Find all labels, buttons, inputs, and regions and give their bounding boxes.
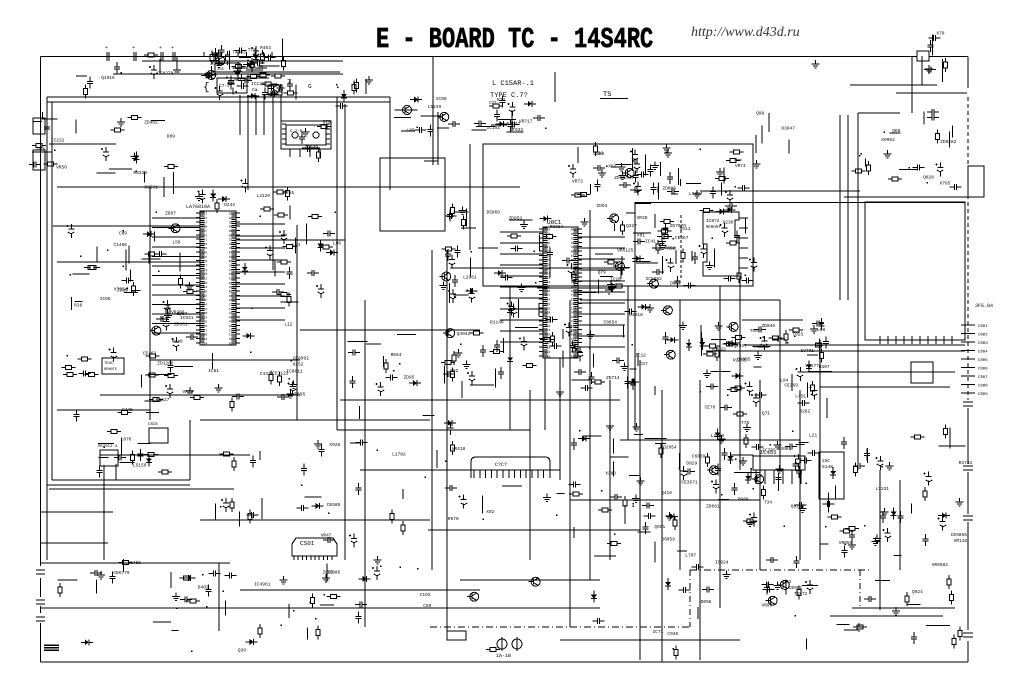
svg-text:L2961: L2961 — [463, 274, 477, 280]
svg-text:L076: L076 — [121, 436, 132, 442]
svg-text:ZD053: ZD053 — [509, 215, 523, 221]
svg-text:T695: T695 — [294, 392, 305, 398]
svg-text:913: 913 — [571, 236, 577, 240]
svg-text:C806: C806 — [978, 367, 988, 372]
svg-text:R678: R678 — [448, 516, 459, 522]
svg-text:Q79: Q79 — [598, 270, 606, 276]
svg-text:D244: D244 — [224, 202, 235, 208]
svg-text:R5327: R5327 — [156, 397, 170, 403]
svg-text:C57: C57 — [640, 361, 648, 367]
svg-text:ZD849: ZD849 — [305, 145, 319, 151]
svg-text:C50: C50 — [423, 603, 431, 609]
svg-text:X383: X383 — [605, 471, 616, 477]
svg-text:917: 917 — [229, 324, 235, 328]
svg-text:TEAC: TEAC — [104, 361, 114, 366]
svg-text:X02: X02 — [486, 509, 494, 515]
svg-text:CE585: CE585 — [327, 502, 341, 508]
svg-text:8A3: 8A3 — [571, 228, 577, 232]
svg-text:IC705: IC705 — [762, 447, 776, 453]
svg-text:+: + — [171, 45, 174, 51]
svg-text:CE6779: CE6779 — [113, 570, 130, 576]
svg-text:R92: R92 — [450, 368, 458, 374]
svg-text:L451: L451 — [795, 395, 806, 400]
svg-text:VR50: VR50 — [56, 165, 67, 171]
svg-text:C809: C809 — [978, 392, 988, 397]
svg-text:C6039: C6039 — [692, 454, 706, 460]
svg-text:9B8: 9B8 — [545, 311, 551, 315]
svg-text:VR6125: VR6125 — [617, 247, 634, 253]
svg-text:C808: C808 — [978, 384, 988, 389]
svg-text:5F5: 5F5 — [571, 350, 577, 354]
svg-text:VR73: VR73 — [572, 179, 583, 185]
svg-text:ZD7070: ZD7070 — [670, 223, 687, 229]
svg-text:IC12: IC12 — [635, 352, 646, 358]
svg-text:93D: 93D — [571, 311, 577, 315]
svg-text:B0E: B0E — [545, 241, 551, 245]
svg-text:CE9856: CE9856 — [951, 532, 968, 538]
svg-text:L98: L98 — [817, 327, 825, 333]
svg-text:C807: C807 — [978, 375, 988, 380]
svg-text:L24: L24 — [292, 242, 300, 248]
svg-text:+: + — [105, 45, 108, 51]
svg-text:D5D: D5D — [545, 302, 551, 306]
svg-text:D989: D989 — [738, 497, 749, 503]
svg-text:R0684: R0684 — [550, 224, 564, 230]
svg-text:D89: D89 — [167, 133, 175, 139]
svg-text:X928: X928 — [329, 442, 340, 448]
svg-text:ZD87: ZD87 — [165, 211, 176, 217]
svg-text:R282: R282 — [799, 408, 810, 414]
svg-text:CS01: CS01 — [300, 540, 315, 547]
svg-text:X795: X795 — [940, 181, 951, 187]
svg-text:X236: X236 — [723, 220, 734, 226]
svg-text:ZD95: ZD95 — [404, 374, 415, 380]
svg-text:D0059: D0059 — [661, 536, 675, 542]
svg-text:C1466: C1466 — [114, 242, 128, 248]
svg-text:ZD1286: ZD1286 — [157, 360, 174, 366]
svg-text:ZD5282: ZD5282 — [940, 139, 957, 145]
svg-text:R3743: R3743 — [959, 460, 973, 466]
svg-text:X0962: X0962 — [881, 137, 895, 143]
svg-text:Q4942: Q4942 — [457, 331, 471, 337]
svg-text:VR717: VR717 — [519, 119, 533, 124]
svg-text:4BF: 4BF — [545, 333, 551, 337]
svg-text:IC66: IC66 — [100, 296, 111, 302]
svg-text:8AF: 8AF — [229, 225, 235, 229]
svg-text:T75: T75 — [741, 421, 749, 426]
svg-text:IC80: IC80 — [436, 96, 447, 102]
svg-text:Q39: Q39 — [238, 648, 246, 654]
svg-text:Q828: Q828 — [923, 174, 934, 180]
svg-text:R307: R307 — [819, 364, 830, 370]
svg-text:C445: C445 — [122, 407, 133, 413]
svg-text:C803: C803 — [978, 341, 988, 346]
svg-text:CE467: CE467 — [675, 235, 689, 241]
svg-text:L1783: L1783 — [392, 451, 406, 457]
svg-text:VR26: VR26 — [183, 389, 194, 395]
svg-text:C804: C804 — [978, 350, 988, 355]
svg-text:CAD: CAD — [229, 264, 235, 268]
svg-text:294: 294 — [202, 285, 208, 289]
svg-text:IC101: IC101 — [487, 125, 501, 131]
svg-text:L21: L21 — [809, 433, 817, 439]
svg-text:Q98: Q98 — [756, 111, 764, 117]
svg-text:4E8: 4E8 — [571, 241, 577, 245]
svg-text:C0654: C0654 — [604, 320, 618, 326]
svg-text:CE6092: CE6092 — [293, 356, 310, 362]
svg-text:AC1: AC1 — [571, 315, 577, 319]
svg-text:MEMORY: MEMORY — [706, 225, 721, 230]
svg-text:Q71: Q71 — [762, 411, 770, 417]
svg-text:VR47: VR47 — [321, 534, 332, 539]
svg-text:C53: C53 — [595, 151, 603, 157]
svg-text:L9627: L9627 — [689, 191, 703, 197]
svg-text:X51: X51 — [608, 164, 616, 169]
svg-text:C801: C801 — [978, 324, 988, 329]
svg-text:R36: R36 — [74, 303, 82, 309]
svg-text:MS2012-4: MS2012-4 — [98, 444, 118, 449]
svg-text:L95: L95 — [406, 128, 414, 134]
svg-text:L5150: L5150 — [133, 463, 147, 469]
svg-text:CBA: CBA — [229, 246, 235, 250]
svg-text:D056: D056 — [701, 599, 712, 605]
svg-text:ZD161: ZD161 — [174, 321, 188, 327]
svg-text:Q651: Q651 — [654, 524, 665, 530]
svg-text:X70: X70 — [936, 31, 944, 37]
svg-text:CE70: CE70 — [705, 404, 716, 410]
svg-text:L5249: L5249 — [428, 104, 442, 110]
svg-text:ZD661: ZD661 — [706, 504, 720, 510]
svg-text:IC8611: IC8611 — [286, 369, 303, 375]
svg-text:VR99: VR99 — [762, 603, 773, 609]
svg-text:053: 053 — [545, 350, 551, 354]
svg-text:1A-1B: 1A-1B — [496, 653, 511, 659]
svg-text:R664: R664 — [391, 352, 402, 358]
svg-text:C31: C31 — [227, 81, 235, 87]
svg-text:CE8279: CE8279 — [157, 71, 174, 77]
svg-text:Q416: Q416 — [661, 490, 672, 496]
svg-text:399: 399 — [545, 315, 551, 319]
svg-text:ZD93: ZD93 — [597, 203, 608, 209]
svg-text:699: 699 — [545, 354, 551, 358]
svg-text:IC921: IC921 — [180, 315, 194, 321]
svg-text:REMOTE: REMOTE — [104, 367, 117, 372]
svg-text:601: 601 — [229, 341, 235, 345]
svg-text:84D: 84D — [545, 289, 551, 293]
svg-text:EE4: EE4 — [545, 328, 551, 332]
svg-text:L96: L96 — [333, 240, 341, 246]
svg-text:067: 067 — [571, 333, 577, 337]
svg-text:C802: C802 — [978, 333, 988, 338]
svg-text:IC61: IC61 — [208, 368, 219, 374]
svg-text:0E7: 0E7 — [545, 293, 551, 297]
svg-text:5148: 5148 — [822, 464, 833, 470]
svg-text:IC95: IC95 — [323, 569, 334, 575]
svg-text:VR418: VR418 — [452, 446, 466, 452]
svg-text:L947: L947 — [624, 175, 635, 181]
svg-text:IC232: IC232 — [51, 137, 65, 143]
svg-text:IC71: IC71 — [653, 629, 664, 635]
svg-text:L56: L56 — [172, 240, 180, 246]
svg-text:IC28: IC28 — [610, 277, 621, 283]
svg-text:LA76810A: LA76810A — [186, 204, 210, 210]
svg-text:R1233: R1233 — [712, 347, 726, 353]
svg-text:2SC: 2SC — [822, 458, 830, 464]
svg-text:IC5882: IC5882 — [646, 276, 663, 282]
svg-text:VR0583: VR0583 — [932, 562, 949, 568]
svg-text:D5869: D5869 — [487, 209, 501, 215]
svg-text:T55: T55 — [750, 329, 758, 334]
svg-text:TYPE C.7?: TYPE C.7? — [490, 92, 528, 100]
svg-text:BDF: BDF — [571, 250, 577, 254]
svg-text:R8330: R8330 — [133, 170, 147, 176]
svg-text:IC4961: IC4961 — [254, 582, 271, 588]
svg-text:C805: C805 — [978, 358, 988, 363]
svg-text:373: 373 — [571, 319, 577, 323]
svg-text:L707: L707 — [685, 552, 696, 558]
svg-text:G: G — [308, 83, 312, 90]
svg-text:ZD846: ZD846 — [762, 323, 776, 329]
svg-text:D3947: D3947 — [781, 125, 795, 131]
svg-text:VR256: VR256 — [171, 310, 185, 316]
svg-text:03D: 03D — [571, 354, 577, 358]
svg-text:C?C?: C?C? — [495, 462, 507, 468]
svg-text:Q024: Q024 — [912, 589, 923, 595]
svg-text:T937: T937 — [736, 343, 747, 349]
svg-text:L3129: L3129 — [257, 193, 271, 199]
svg-text:CE3671: CE3671 — [681, 480, 698, 486]
svg-text:IC89: IC89 — [117, 287, 128, 293]
svg-text:4D6: 4D6 — [202, 246, 208, 250]
svg-text:Q327: Q327 — [626, 223, 637, 229]
svg-text:Q1916: Q1916 — [101, 75, 115, 81]
svg-text:X252: X252 — [293, 362, 304, 368]
svg-text:L C15AR-.1: L C15AR-.1 — [492, 80, 534, 88]
svg-text:Q9085: Q9085 — [737, 357, 751, 363]
svg-text:Q8294: Q8294 — [791, 504, 805, 510]
svg-text:D829: D829 — [686, 461, 697, 467]
svg-text:3F5.04: 3F5.04 — [975, 303, 993, 309]
svg-text:+: + — [159, 45, 162, 51]
svg-text:L12: L12 — [284, 321, 292, 327]
svg-text:IC924: IC924 — [715, 559, 729, 565]
svg-text:78C: 78C — [571, 302, 577, 306]
svg-text:4EB: 4EB — [545, 250, 551, 254]
svg-text:757: 757 — [571, 293, 577, 297]
svg-text:T34: T34 — [764, 499, 772, 505]
svg-text:C946: C946 — [667, 631, 678, 637]
svg-text:384: 384 — [202, 302, 208, 306]
svg-text:R1140: R1140 — [490, 319, 504, 325]
svg-text:L7331: L7331 — [876, 486, 890, 492]
svg-text:65F: 65F — [571, 341, 577, 345]
svg-text:C1B: C1B — [229, 302, 235, 306]
svg-text:0FD: 0FD — [202, 324, 208, 328]
svg-text:IC8?2: IC8?2 — [706, 218, 720, 224]
svg-text:T6872: T6872 — [794, 591, 808, 597]
svg-text:{: { — [203, 82, 210, 94]
svg-text:VR74: VR74 — [735, 164, 746, 169]
svg-text:IC455: IC455 — [127, 560, 141, 566]
svg-text:954: 954 — [202, 341, 208, 345]
svg-text:D0591: D0591 — [144, 185, 158, 191]
svg-text:R463: R463 — [260, 45, 271, 51]
svg-text:VR056: VR056 — [839, 540, 853, 546]
svg-text:ZD982: ZD982 — [144, 120, 158, 126]
svg-text:TS: TS — [603, 91, 611, 99]
svg-text:C89: C89 — [119, 231, 127, 237]
svg-text:VR30: VR30 — [637, 215, 648, 221]
svg-text:DDB: DDB — [202, 225, 208, 229]
svg-text:IC701: IC701 — [801, 348, 815, 354]
svg-text:IC1322: IC1322 — [251, 81, 268, 87]
svg-text:+: + — [132, 45, 135, 51]
svg-text:CE462: CE462 — [143, 351, 157, 357]
svg-text:ZD714: ZD714 — [606, 376, 620, 381]
svg-text:0E7: 0E7 — [202, 264, 208, 268]
svg-text:IC41: IC41 — [645, 238, 656, 244]
svg-text:CE369: CE369 — [784, 383, 798, 389]
svg-text:91D: 91D — [229, 285, 235, 289]
svg-text:Ca: Ca — [252, 87, 258, 93]
svg-text:C4427: C4427 — [260, 371, 274, 377]
svg-text:VR115: VR115 — [954, 539, 968, 544]
svg-text:C8C8: C8C8 — [148, 422, 158, 427]
svg-text:C 2-8: C 2-8 — [290, 129, 303, 134]
svg-text:C103: C103 — [420, 592, 431, 598]
svg-text:T933: T933 — [512, 127, 523, 133]
svg-text:R3001: R3001 — [778, 446, 792, 452]
